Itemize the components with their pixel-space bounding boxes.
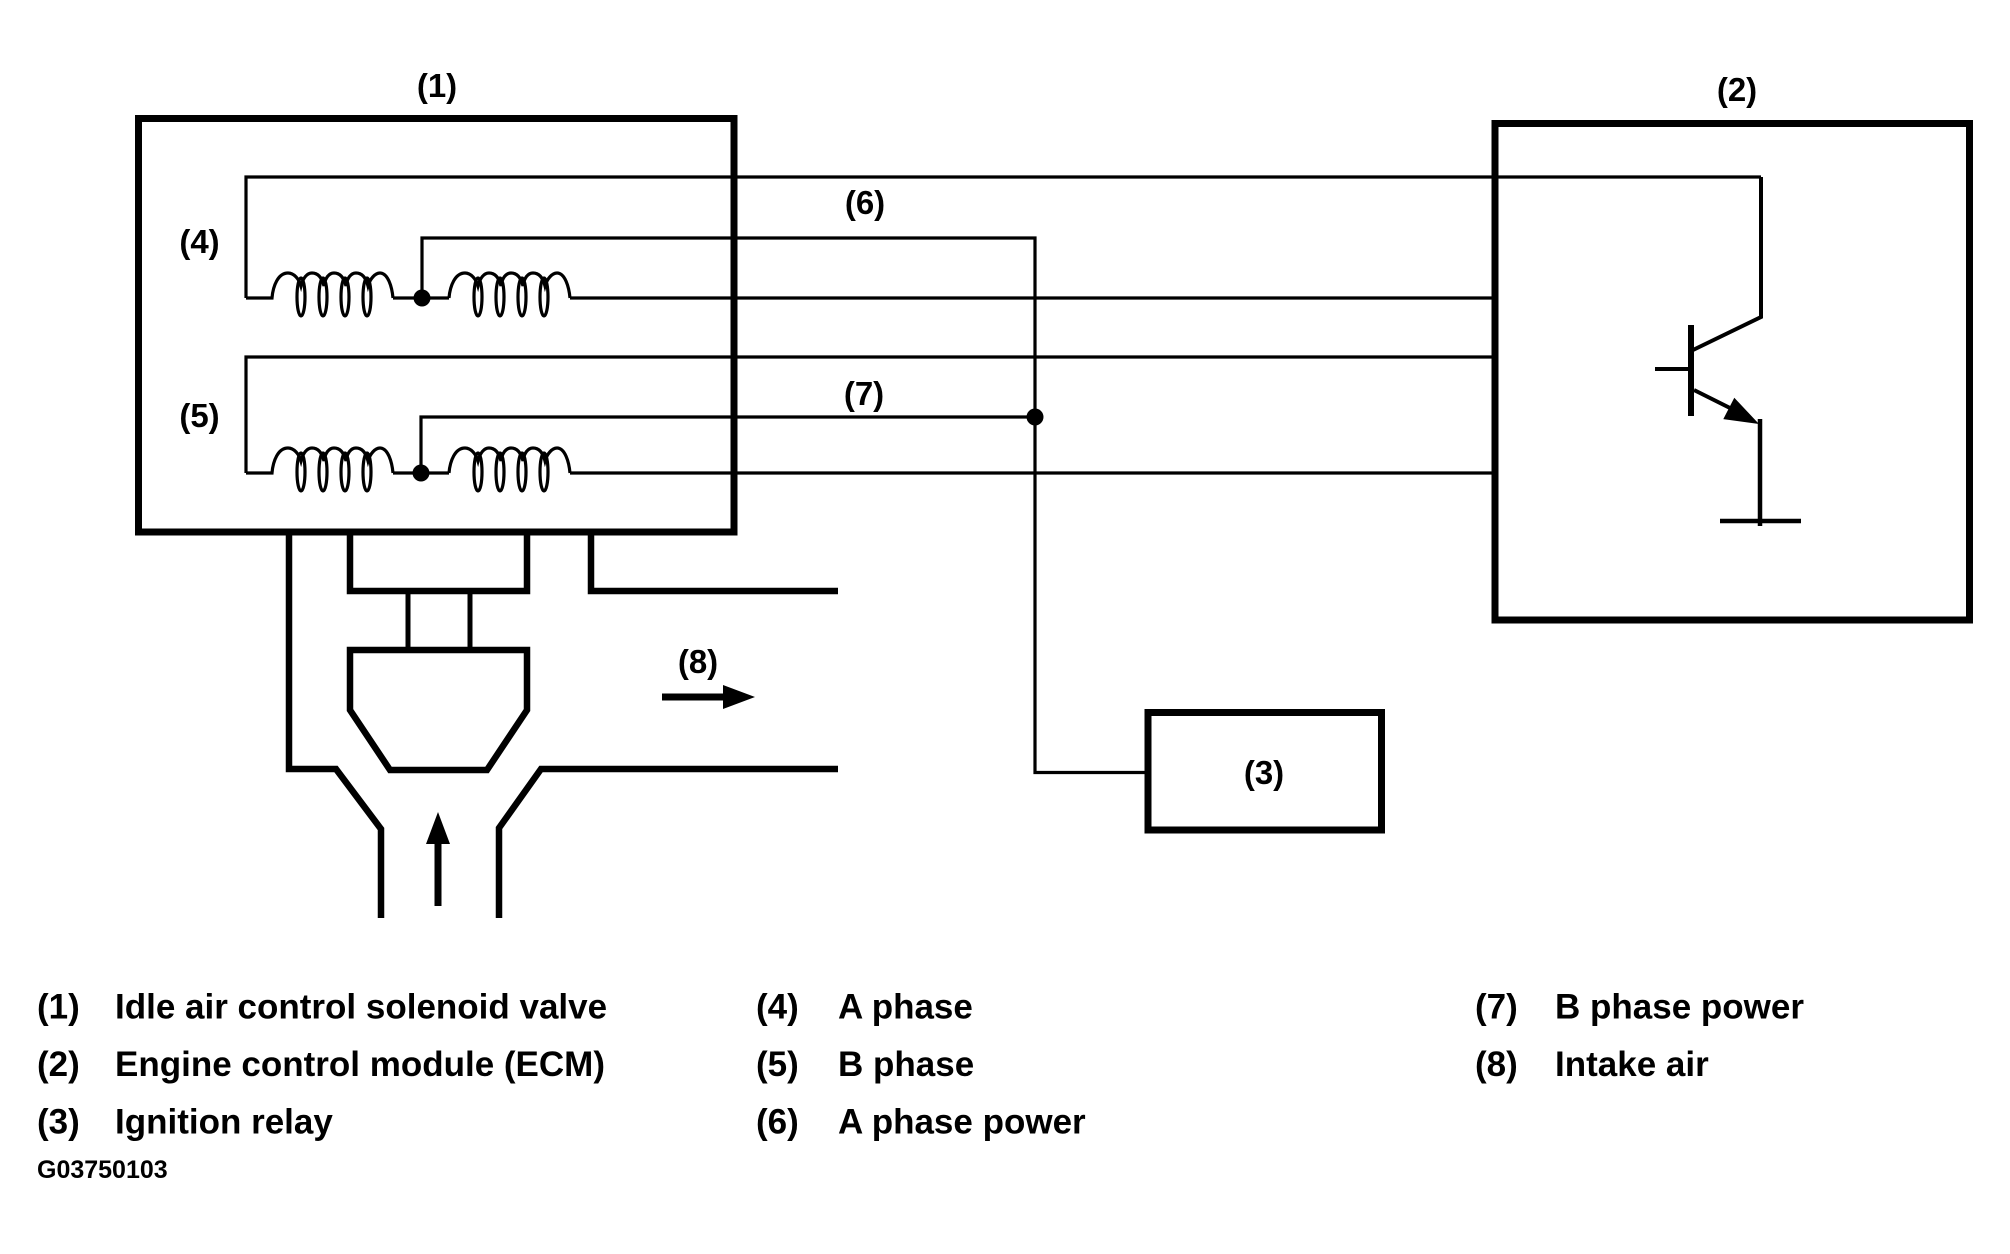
transistor Q1 emitter wire	[1758, 419, 1763, 526]
wire between A phase windings	[393, 296, 449, 299]
valve stem	[408, 591, 470, 650]
svg-text:(7): (7)	[844, 375, 884, 412]
inductor A phase left winding	[246, 273, 393, 316]
svg-text:Intake air: Intake air	[1555, 1045, 1709, 1084]
transistor Q1 emitter lead with arrow	[1694, 390, 1740, 413]
svg-text:(4): (4)	[179, 223, 219, 260]
box (2) engine control module ECM	[1495, 124, 1970, 621]
inductor B phase left winding	[246, 448, 393, 491]
svg-text:(3): (3)	[1244, 754, 1284, 791]
transistor Q1 base stub	[1655, 367, 1688, 371]
wire between B phase windings	[393, 471, 449, 474]
svg-text:(1): (1)	[417, 67, 457, 104]
valve body left wall	[289, 534, 381, 918]
svg-text:(1): (1)	[37, 988, 80, 1027]
svg-text:B phase power: B phase power	[1555, 988, 1804, 1027]
wire (6) A phase power: center tap to ignition relay	[422, 238, 1146, 773]
wire B phase winding end to ECM	[570, 471, 1492, 474]
box (1) idle air control solenoid valve	[139, 119, 735, 533]
svg-text:(7): (7)	[1475, 988, 1518, 1027]
wire A phase loop top to ECM collector	[246, 177, 1761, 298]
svg-text:A phase power: A phase power	[838, 1103, 1086, 1142]
svg-text:(8): (8)	[678, 643, 718, 680]
wire A phase winding end to ECM	[570, 296, 1492, 299]
svg-text:Ignition relay: Ignition relay	[115, 1103, 333, 1142]
valve armature housing	[350, 534, 527, 591]
svg-text:(2): (2)	[37, 1045, 80, 1084]
svg-text:(5): (5)	[179, 397, 219, 434]
valve plug	[350, 650, 527, 770]
svg-text:(4): (4)	[756, 988, 799, 1027]
inductor A phase right winding	[449, 273, 570, 316]
svg-text:A phase: A phase	[838, 988, 973, 1027]
svg-text:Idle air control solenoid valv: Idle air control solenoid valve	[115, 988, 607, 1027]
svg-text:(6): (6)	[756, 1103, 799, 1142]
inductor B phase right winding	[449, 448, 570, 491]
svg-text:G03750103: G03750103	[37, 1156, 168, 1184]
emitter terminator rail	[1720, 519, 1801, 524]
svg-text:(3): (3)	[37, 1103, 80, 1142]
svg-text:Engine control module (ECM): Engine control module (ECM)	[115, 1045, 605, 1084]
svg-text:B phase: B phase	[838, 1045, 974, 1084]
svg-text:(5): (5)	[756, 1045, 799, 1084]
junction dot B phase center tap	[413, 465, 430, 482]
svg-text:(2): (2)	[1717, 71, 1757, 108]
outlet passage bottom wall and right intake wall	[499, 769, 838, 918]
transistor Q1 base bar	[1688, 325, 1694, 416]
arrow (8) intake air flow (right)	[662, 694, 723, 701]
intake air arrow (up)	[435, 843, 442, 906]
box (3) ignition relay	[1148, 713, 1382, 831]
wire B phase loop top to ECM	[246, 357, 1492, 473]
junction dot (6)/(7) power node	[1027, 409, 1044, 426]
junction dot A phase center tap	[414, 290, 431, 307]
transistor Q1 collector lead	[1693, 177, 1761, 350]
wire (7) B phase power: center tap to junction	[421, 417, 1035, 473]
svg-text:(6): (6)	[845, 184, 885, 221]
outlet passage top wall	[591, 534, 838, 591]
svg-text:(8): (8)	[1475, 1045, 1518, 1084]
